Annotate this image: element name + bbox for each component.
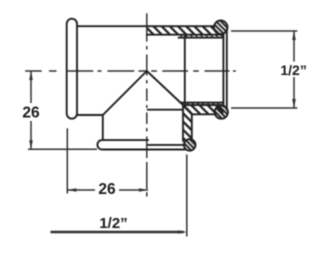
- svg-text:26: 26: [22, 105, 40, 122]
- svg-text:26: 26: [98, 181, 116, 198]
- svg-text:1/2”: 1/2”: [280, 62, 306, 78]
- svg-text:1/2”: 1/2”: [99, 215, 127, 232]
